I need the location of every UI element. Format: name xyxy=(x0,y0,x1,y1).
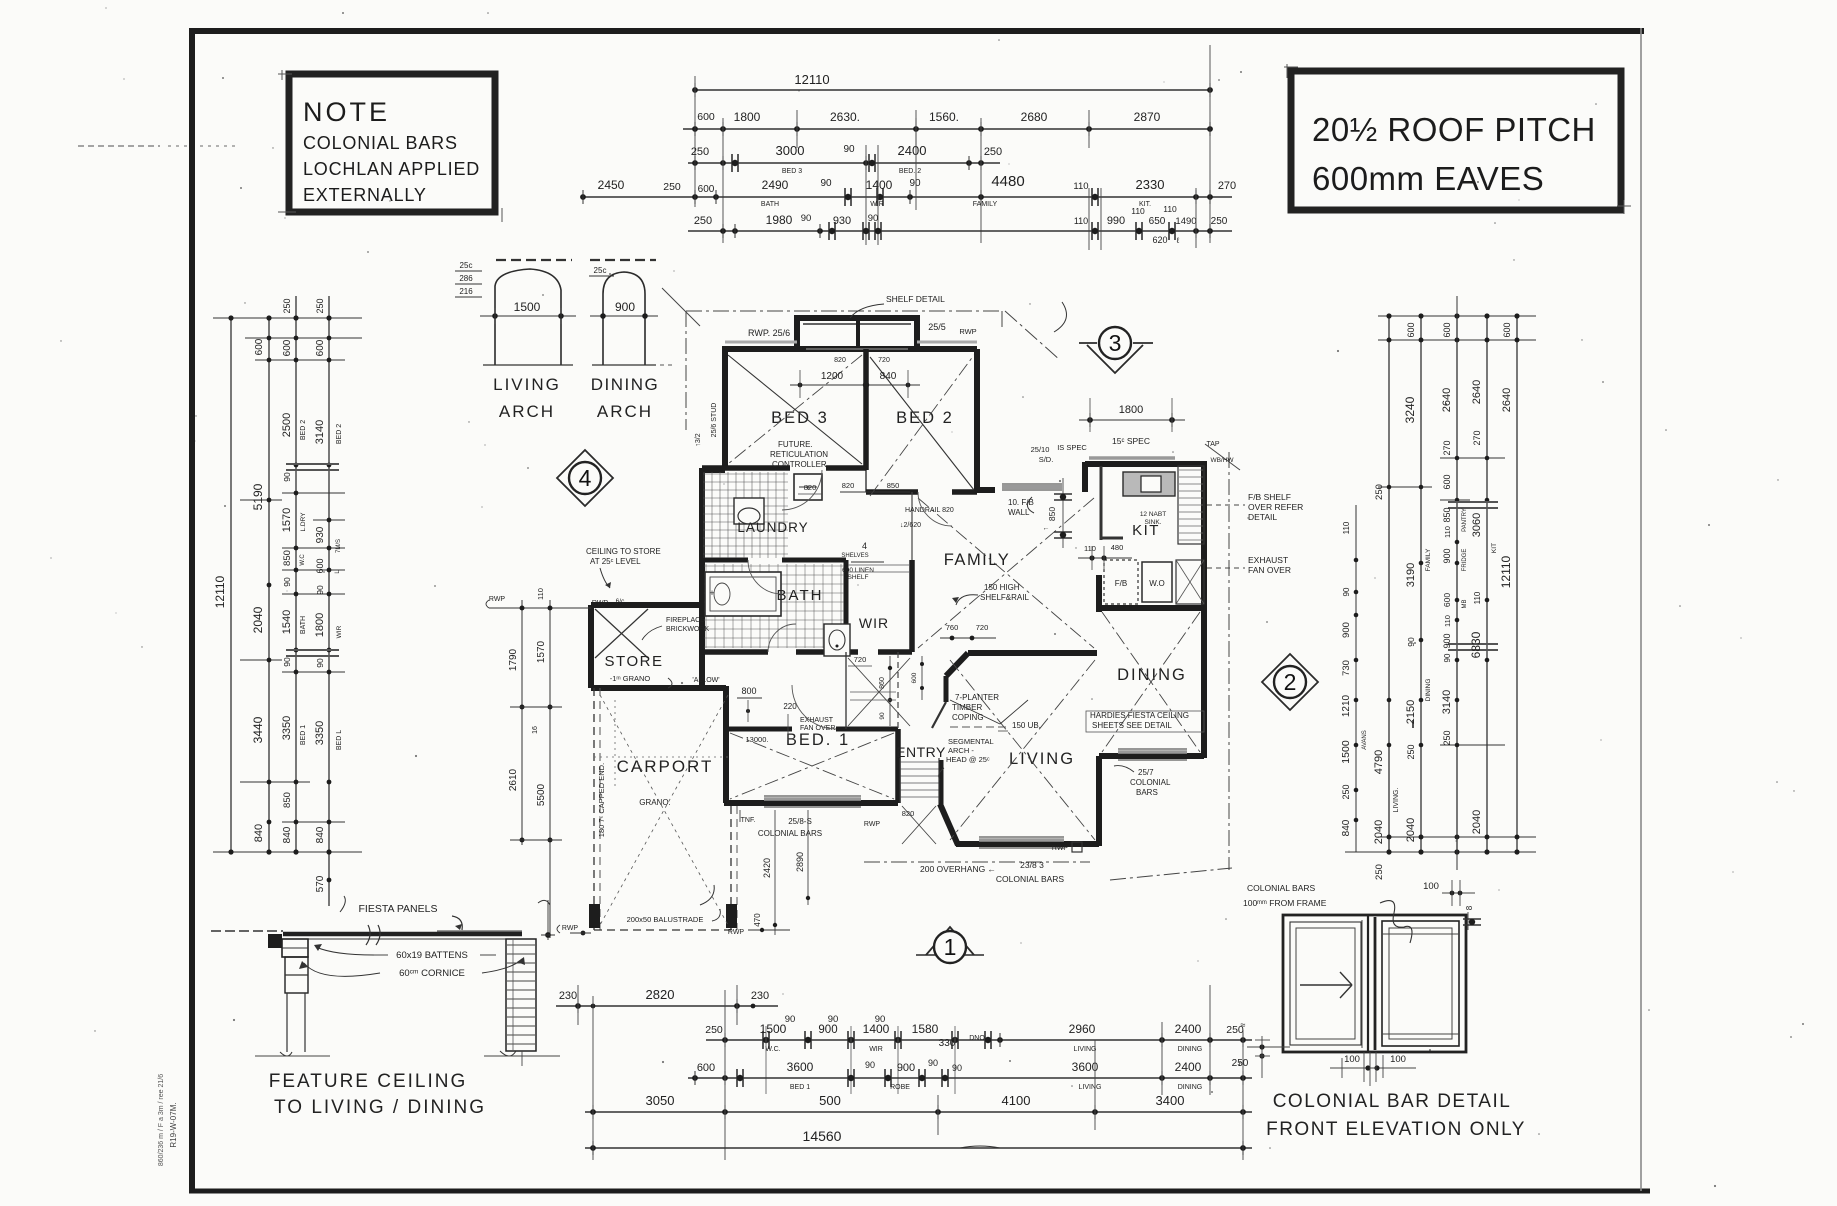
svg-text:FAMILY: FAMILY xyxy=(944,551,1010,569)
svg-text:820: 820 xyxy=(834,357,846,364)
robe dims 820-850 xyxy=(840,491,910,493)
svg-text:'ALLOW': 'ALLOW' xyxy=(692,677,719,684)
svg-text:3140: 3140 xyxy=(1441,690,1453,714)
svg-text:OVER REFER: OVER REFER xyxy=(1248,502,1303,512)
svg-text:100ᵐᵐ FROM FRAME: 100ᵐᵐ FROM FRAME xyxy=(1243,898,1327,908)
living beam line 150UB xyxy=(950,726,1008,728)
svg-text:110: 110 xyxy=(1473,591,1482,604)
floor plan walls - exterior xyxy=(702,318,1207,848)
robe shelves xyxy=(846,565,910,729)
tap rwp bottom of bed1 xyxy=(739,810,741,822)
svg-text:-1ᵐ GRANO: -1ᵐ GRANO xyxy=(610,674,651,683)
svg-text:TIMBER: TIMBER xyxy=(952,703,982,712)
svg-text:720: 720 xyxy=(854,655,867,664)
section marker 3 xyxy=(1079,327,1153,373)
svg-text:BED 2: BED 2 xyxy=(896,409,954,427)
svg-text:20½ ROOF PITCH: 20½ ROOF PITCH xyxy=(1312,111,1596,148)
svg-text:2040: 2040 xyxy=(1405,818,1417,842)
bottom dimension chain row B xyxy=(705,1014,1252,1094)
svg-text:3060: 3060 xyxy=(1471,513,1483,537)
svg-text:7M/S: 7M/S xyxy=(336,539,342,553)
colonial bar window detail xyxy=(1238,880,1526,1140)
door swing arcs xyxy=(748,470,952,729)
hall cross xyxy=(848,658,910,726)
living arch detail xyxy=(455,260,576,421)
svg-text:DNO: DNO xyxy=(969,1035,985,1042)
svg-text:900: 900 xyxy=(615,300,635,314)
svg-text:730: 730 xyxy=(1341,660,1352,676)
svg-text:ARCH: ARCH xyxy=(597,402,653,421)
svg-text:W.C: W.C xyxy=(300,554,306,566)
svg-text:WIR: WIR xyxy=(869,1046,883,1053)
svg-text:900: 900 xyxy=(1442,633,1452,648)
svg-text:FIESTA PANELS: FIESTA PANELS xyxy=(359,903,438,915)
svg-text:RWP: RWP xyxy=(959,327,976,336)
svg-text:286: 286 xyxy=(459,274,473,283)
svg-text:110: 110 xyxy=(536,588,545,600)
svg-text:760: 760 xyxy=(946,623,959,632)
svg-text:600: 600 xyxy=(697,111,715,123)
svg-text:600: 600 xyxy=(315,339,326,356)
svg-text:110: 110 xyxy=(1074,216,1088,226)
svg-text:FAN OVER: FAN OVER xyxy=(1248,565,1291,575)
svg-text:IS SPEC: IS SPEC xyxy=(1057,443,1087,452)
svg-text:4: 4 xyxy=(862,541,867,551)
dim 110-480 below bench xyxy=(1078,557,1132,559)
top dimension chain row 5 xyxy=(688,188,1232,250)
svg-text:2400: 2400 xyxy=(1175,1022,1202,1036)
svg-text:2640: 2640 xyxy=(1471,380,1483,404)
feature ceiling detail xyxy=(211,896,560,1118)
svg-text:SHEETS SEE DETAIL: SHEETS SEE DETAIL xyxy=(1092,721,1172,730)
svg-text:CARPORT: CARPORT xyxy=(617,757,714,776)
svg-text:FEATURE CEILING: FEATURE CEILING xyxy=(269,1071,468,1092)
svg-text:BED 2: BED 2 xyxy=(300,420,307,440)
section marker 4 xyxy=(557,450,613,506)
svg-text:W.O: W.O xyxy=(1149,579,1165,588)
svg-text:AT 25ᶜ LEVEL: AT 25ᶜ LEVEL xyxy=(590,557,641,566)
svg-text:12110: 12110 xyxy=(213,575,227,608)
svg-text:2610: 2610 xyxy=(508,768,519,791)
svg-text:990: 990 xyxy=(1107,215,1125,227)
svg-text:DINING: DINING xyxy=(591,375,660,394)
svg-text:LIVING: LIVING xyxy=(1074,1046,1097,1053)
svg-text:840: 840 xyxy=(282,826,293,843)
svg-text:1500: 1500 xyxy=(1340,740,1352,764)
svg-text:13000.: 13000. xyxy=(746,735,769,744)
svg-text:90: 90 xyxy=(282,472,292,482)
svg-text:EXHAUST: EXHAUST xyxy=(800,717,834,724)
svg-text:600 LINEN: 600 LINEN xyxy=(842,567,874,574)
svg-text:900: 900 xyxy=(1442,548,1452,563)
svg-text:800: 800 xyxy=(741,686,756,696)
svg-text:930: 930 xyxy=(315,526,326,543)
svg-text:MB: MB xyxy=(1462,600,1468,609)
svg-text:1540: 1540 xyxy=(281,610,293,634)
svg-text:250: 250 xyxy=(1406,744,1416,759)
svg-text:DINING: DINING xyxy=(1425,679,1432,702)
section marker 1 xyxy=(916,927,984,963)
svg-text:250: 250 xyxy=(315,298,325,313)
svg-text:HANDRAIL 820: HANDRAIL 820 xyxy=(905,507,954,514)
svg-text:720: 720 xyxy=(976,623,989,632)
svg-text:90: 90 xyxy=(1342,587,1351,596)
svg-text:1570: 1570 xyxy=(281,508,293,532)
svg-text:5500: 5500 xyxy=(536,783,547,806)
svg-text:←: ← xyxy=(1043,525,1050,532)
svg-text:RWP: RWP xyxy=(728,929,745,936)
right dimension chains xyxy=(1340,296,1536,930)
svg-text:600: 600 xyxy=(282,339,293,356)
svg-text:3400: 3400 xyxy=(1156,1093,1185,1108)
svg-text:TO LIVING / DINING: TO LIVING / DINING xyxy=(274,1097,486,1118)
dining arch detail xyxy=(589,260,676,421)
store-carport diagonal xyxy=(600,695,728,925)
svg-text:100: 100 xyxy=(1423,881,1439,892)
svg-text:WIR: WIR xyxy=(336,625,343,638)
svg-text:850: 850 xyxy=(887,481,900,490)
svg-text:BATH: BATH xyxy=(300,616,307,634)
svg-text:90: 90 xyxy=(315,585,325,595)
svg-text:250: 250 xyxy=(1374,484,1385,500)
svg-text:ARCH: ARCH xyxy=(499,402,555,421)
svg-text:2400: 2400 xyxy=(898,143,927,158)
svg-text:930: 930 xyxy=(833,215,851,227)
svg-text:12 NABT: 12 NABT xyxy=(1140,511,1166,518)
svg-text:TAP: TAP xyxy=(1206,441,1219,448)
svg-text:250: 250 xyxy=(1374,864,1385,880)
svg-text:3190: 3190 xyxy=(1405,563,1417,587)
svg-text:620: 620 xyxy=(1152,235,1167,245)
svg-text:F/B SHELF: F/B SHELF xyxy=(1248,492,1291,502)
svg-text:1800: 1800 xyxy=(734,110,761,124)
svg-text:1800: 1800 xyxy=(1119,404,1143,416)
svg-text:↓2/620: ↓2/620 xyxy=(900,522,921,529)
svg-text:CEILING TO STORE: CEILING TO STORE xyxy=(586,547,661,556)
svg-text:NOTE: NOTE xyxy=(303,97,390,127)
svg-text:250: 250 xyxy=(282,298,292,313)
svg-text:230: 230 xyxy=(751,990,769,1002)
svg-text:90: 90 xyxy=(868,213,879,224)
svg-text:820: 820 xyxy=(902,809,915,818)
west eave dashdot xyxy=(685,311,687,430)
hall small dim cluster xyxy=(879,656,924,726)
svg-text:100: 100 xyxy=(1344,1054,1360,1065)
svg-text:25/7: 25/7 xyxy=(1138,768,1154,777)
svg-text:180 7ᶜ CAPPED END.: 180 7ᶜ CAPPED END. xyxy=(597,763,606,837)
svg-text:2040: 2040 xyxy=(251,606,265,633)
svg-text:FAMILY: FAMILY xyxy=(1425,548,1432,571)
svg-text:840: 840 xyxy=(253,824,265,842)
room diagonals bed2 xyxy=(870,355,974,496)
svg-text:BRICKWORK: BRICKWORK xyxy=(666,626,710,633)
svg-text:BED 2: BED 2 xyxy=(336,424,343,444)
svg-text:DINING: DINING xyxy=(1178,1046,1203,1053)
svg-text:BED 3: BED 3 xyxy=(771,409,829,427)
svg-text:2820: 2820 xyxy=(646,987,675,1002)
svg-text:RWP: RWP xyxy=(864,821,881,828)
svg-text:1200: 1200 xyxy=(821,371,844,382)
svg-text:90: 90 xyxy=(282,657,292,667)
svg-text:60x19 BATTENS: 60x19 BATTENS xyxy=(396,950,468,961)
svg-text:600: 600 xyxy=(315,558,325,573)
svg-text:3600: 3600 xyxy=(787,1060,814,1074)
svg-text:LIVING: LIVING xyxy=(1009,750,1075,768)
svg-text:1570: 1570 xyxy=(536,640,547,663)
top dimension chain row 4 - 2450 extension xyxy=(580,118,1236,245)
svg-text:270: 270 xyxy=(1218,180,1236,192)
svg-text:+: + xyxy=(709,588,714,598)
svg-text:COLONIAL BAR DETAIL: COLONIAL BAR DETAIL xyxy=(1273,1091,1512,1112)
svg-text:5190: 5190 xyxy=(251,483,265,510)
svg-text:1490: 1490 xyxy=(1175,216,1196,227)
svg-text:90: 90 xyxy=(1406,637,1416,647)
svg-text:25c: 25c xyxy=(594,266,607,275)
svg-text:2: 2 xyxy=(1284,669,1297,695)
svg-text:3140: 3140 xyxy=(314,420,326,444)
svg-text:900: 900 xyxy=(897,1062,915,1074)
svg-text:2500: 2500 xyxy=(281,413,293,437)
svg-text:90: 90 xyxy=(928,1058,938,1068)
svg-text:60ᶜᵐ CORNICE: 60ᶜᵐ CORNICE xyxy=(399,968,465,979)
svg-text:↑3/2: ↑3/2 xyxy=(695,433,702,446)
svg-text:FAMILY: FAMILY xyxy=(973,201,998,208)
svg-text:110: 110 xyxy=(1443,615,1452,627)
svg-text:1580: 1580 xyxy=(912,1022,939,1036)
svg-text:860/236 m / F a 3m / ree 21/6: 860/236 m / F a 3m / ree 21/6 xyxy=(158,1074,165,1166)
svg-text:6830: 6830 xyxy=(1469,631,1483,658)
svg-text:1210: 1210 xyxy=(1341,694,1352,717)
svg-text:4100: 4100 xyxy=(1002,1093,1031,1108)
svg-text:3240: 3240 xyxy=(1403,396,1417,423)
rwp marks and eave dashdot top xyxy=(662,288,1067,447)
svg-text:650: 650 xyxy=(1149,216,1166,227)
svg-text:90: 90 xyxy=(865,1060,875,1070)
svg-text:2420: 2420 xyxy=(762,858,772,878)
svg-text:90: 90 xyxy=(843,144,855,155)
svg-text:250: 250 xyxy=(705,1024,723,1036)
svg-text:250: 250 xyxy=(1442,730,1452,745)
svg-text:RWP: RWP xyxy=(489,596,506,603)
svg-text:SHELF&RAIL: SHELF&RAIL xyxy=(980,593,1029,602)
svg-text:850: 850 xyxy=(1442,507,1452,522)
svg-text:23/8 3: 23/8 3 xyxy=(1020,860,1044,870)
svg-text:4480: 4480 xyxy=(991,173,1024,190)
svg-text:COLONIAL BARS: COLONIAL BARS xyxy=(303,133,458,153)
svg-text:150 UB.: 150 UB. xyxy=(1012,721,1041,730)
svg-text:RWP: RWP xyxy=(592,600,609,607)
svg-text:6/c: 6/c xyxy=(616,598,625,605)
svg-text:R19-W-07M.: R19-W-07M. xyxy=(169,1102,178,1147)
svg-text:250: 250 xyxy=(1341,784,1351,799)
svg-text:2330: 2330 xyxy=(1136,177,1165,192)
room diagonals family xyxy=(918,498,1094,648)
svg-text:600: 600 xyxy=(1442,322,1452,337)
NOTE box xyxy=(278,70,502,222)
svg-text:600: 600 xyxy=(1502,322,1512,337)
bottom dimension chain row C xyxy=(688,1058,1252,1091)
laundry tile hatch xyxy=(703,472,788,558)
svg-text:90: 90 xyxy=(952,1063,962,1073)
svg-text:250: 250 xyxy=(691,146,709,158)
room diagonals dining xyxy=(1102,612,1200,752)
svg-text:110: 110 xyxy=(1131,206,1145,216)
svg-text:12110: 12110 xyxy=(1499,555,1513,588)
svg-text:25/10: 25/10 xyxy=(1031,445,1050,454)
svg-text:720: 720 xyxy=(878,357,890,364)
svg-text:330: 330 xyxy=(939,1038,956,1049)
svg-text:2400: 2400 xyxy=(1175,1060,1202,1074)
svg-text:1500: 1500 xyxy=(514,300,541,314)
svg-text:500: 500 xyxy=(819,1093,841,1108)
svg-text:SHELF DETAIL: SHELF DETAIL xyxy=(886,294,945,304)
entry porch steps xyxy=(900,758,939,844)
svg-text:90: 90 xyxy=(315,658,325,668)
top dimension chain row 12110 xyxy=(692,45,1213,243)
svg-text:840: 840 xyxy=(1341,819,1352,836)
svg-text:2490: 2490 xyxy=(762,178,789,192)
svg-text:2960: 2960 xyxy=(1069,1022,1096,1036)
svg-text:216: 216 xyxy=(459,287,473,296)
svg-text:90: 90 xyxy=(820,178,832,189)
dim 2420 2890 470 below bed1 xyxy=(728,810,810,936)
bath fixtures xyxy=(705,474,850,656)
svg-text:250: 250 xyxy=(663,181,681,193)
svg-text:900: 900 xyxy=(818,1024,837,1036)
bottom dimension chain row A 230-2820-230 xyxy=(556,985,778,1025)
svg-text:14560: 14560 xyxy=(803,1128,842,1144)
svg-text:600: 600 xyxy=(698,184,715,195)
room diagonals bed3 xyxy=(728,355,862,464)
svg-text:WB/HW: WB/HW xyxy=(1210,457,1234,464)
svg-text:1560.: 1560. xyxy=(929,110,959,124)
svg-text:1790: 1790 xyxy=(508,648,519,671)
top-left margin smudge xyxy=(78,145,160,147)
svg-text:2870: 2870 xyxy=(1134,110,1161,124)
svg-text:2680: 2680 xyxy=(1021,110,1048,124)
svg-text:RWP. 25/6: RWP. 25/6 xyxy=(748,328,790,338)
svg-text:100: 100 xyxy=(1390,1054,1406,1065)
svg-text:110: 110 xyxy=(1084,544,1096,553)
svg-text:900: 900 xyxy=(1341,622,1352,638)
kitchen 1800 dim xyxy=(1079,398,1185,446)
svg-text:150 HIGH: 150 HIGH xyxy=(984,583,1020,592)
svg-text:1: 1 xyxy=(944,934,957,960)
dim 1200 840 in bed rooms xyxy=(790,384,920,386)
svg-text:4: 4 xyxy=(579,465,592,491)
svg-text:110: 110 xyxy=(1342,521,1351,534)
svg-text:25/5: 25/5 xyxy=(928,322,946,332)
kitchen bench and fittings xyxy=(1101,466,1204,604)
top dimension chain row 2 xyxy=(683,110,1213,148)
svg-text:CONTROLLER: CONTROLLER xyxy=(772,460,827,469)
svg-text:FUTURE.: FUTURE. xyxy=(778,440,813,449)
svg-text:600: 600 xyxy=(1442,474,1452,489)
svg-text:90: 90 xyxy=(828,1014,839,1025)
svg-text:2890: 2890 xyxy=(795,852,805,872)
svg-text:2040: 2040 xyxy=(1471,810,1483,834)
svg-text:EXTERNALLY: EXTERNALLY xyxy=(303,185,427,205)
page border frame xyxy=(189,28,1650,1191)
svg-text:2150: 2150 xyxy=(1405,700,1417,724)
svg-text:ℓ: ℓ xyxy=(1176,236,1180,245)
svg-text:LIVING: LIVING xyxy=(1079,1084,1102,1091)
svg-text:TNF.: TNF. xyxy=(741,817,756,824)
svg-text:3350: 3350 xyxy=(314,721,326,745)
svg-text:ROBE: ROBE xyxy=(890,1084,910,1091)
svg-text:2630.: 2630. xyxy=(830,110,860,124)
svg-text:BED 1: BED 1 xyxy=(300,725,307,745)
family dim 760-720 xyxy=(940,637,996,639)
mid-left vertical dimension lines xyxy=(486,588,591,938)
svg-text:270: 270 xyxy=(1442,440,1452,455)
room diagonals living xyxy=(950,660,1095,840)
svg-text:STORE: STORE xyxy=(605,653,664,670)
svg-text:COLONIAL BARS: COLONIAL BARS xyxy=(1247,883,1316,893)
svg-text:LOCHLAN APPLIED: LOCHLAN APPLIED xyxy=(303,159,480,179)
svg-text:850: 850 xyxy=(282,550,293,566)
svg-text:90: 90 xyxy=(785,1014,796,1025)
svg-text:BED L: BED L xyxy=(336,730,343,750)
svg-text:250: 250 xyxy=(984,146,1002,158)
svg-text:8: 8 xyxy=(1465,905,1474,910)
svg-text:7-PLANTER: 7-PLANTER xyxy=(955,693,999,702)
svg-text:2640: 2640 xyxy=(1501,388,1513,412)
svg-text:3050: 3050 xyxy=(646,1093,675,1108)
svg-text:WIR: WIR xyxy=(870,201,884,208)
svg-text:3440: 3440 xyxy=(251,716,265,743)
svg-text:BED. 2: BED. 2 xyxy=(899,168,921,175)
svg-text:FRIDGE: FRIDGE xyxy=(1462,549,1468,572)
svg-text:COPING: COPING xyxy=(952,713,984,722)
svg-text:600mm EAVES: 600mm EAVES xyxy=(1312,160,1544,197)
svg-text:860: 860 xyxy=(879,677,886,689)
svg-text:600: 600 xyxy=(1442,593,1452,607)
svg-text:LAUNDRY: LAUNDRY xyxy=(737,520,808,535)
svg-text:25c: 25c xyxy=(460,261,473,270)
svg-text:FRONT ELEVATION ONLY: FRONT ELEVATION ONLY xyxy=(1266,1119,1526,1140)
svg-text:200x50 BALUSTRADE: 200x50 BALUSTRADE xyxy=(627,915,704,924)
svg-text:BATH: BATH xyxy=(777,587,824,604)
svg-text:SEGMENTAL: SEGMENTAL xyxy=(948,737,994,746)
svg-text:16: 16 xyxy=(532,726,539,734)
svg-text:W.C.: W.C. xyxy=(765,1046,780,1053)
bottom dimension chain row E 14560 xyxy=(585,1128,1252,1155)
room diagonals bed1 xyxy=(730,733,894,799)
store walls xyxy=(591,605,726,688)
svg-text:L.DRY: L.DRY xyxy=(300,512,307,532)
svg-text:F/B: F/B xyxy=(1115,579,1127,588)
left dimension chains xyxy=(213,296,362,906)
svg-text:ENTRY: ENTRY xyxy=(896,744,946,760)
svg-text:3: 3 xyxy=(1109,330,1122,356)
vertical dim 850 at fb wall xyxy=(1062,478,1064,548)
svg-text:S/D.: S/D. xyxy=(1039,455,1054,464)
svg-text:PANTRY: PANTRY xyxy=(1462,508,1468,532)
carport outline dashed xyxy=(589,688,737,930)
svg-text:250: 250 xyxy=(694,215,712,227)
svg-text:840: 840 xyxy=(880,371,897,382)
svg-text:2040: 2040 xyxy=(1373,820,1385,844)
svg-text:COLONIAL BARS: COLONIAL BARS xyxy=(996,874,1065,884)
svg-text:1800: 1800 xyxy=(314,613,326,637)
svg-text:820: 820 xyxy=(842,481,855,490)
svg-text:110: 110 xyxy=(1163,204,1177,214)
svg-text:600: 600 xyxy=(697,1062,715,1074)
svg-text:RWP: RWP xyxy=(562,925,579,932)
svg-text:DETAIL: DETAIL xyxy=(1248,512,1277,522)
svg-text:12110: 12110 xyxy=(794,72,829,87)
